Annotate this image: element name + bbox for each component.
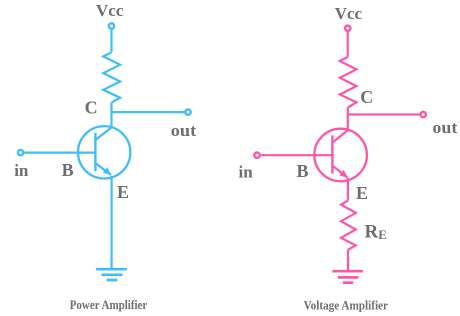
resistor RE (right emitter resistor) — [341, 201, 356, 250]
svg-text:Vcc: Vcc — [96, 1, 124, 20]
svg-text:Power Amplifier: Power Amplifier — [70, 298, 148, 312]
wire Vcc to R (left) — [110, 30, 112, 53]
wire Vcc to R (right) — [347, 32, 349, 57]
svg-text:C: C — [85, 98, 98, 118]
svg-text:Vcc: Vcc — [335, 4, 363, 23]
svg-text:RE: RE — [365, 222, 387, 243]
svg-text:B: B — [296, 161, 308, 181]
terminal in (right) — [254, 153, 259, 158]
wire in to base (right) — [261, 154, 333, 156]
svg-text:in: in — [14, 161, 29, 180]
wire R to collector node (right) — [347, 108, 349, 131]
resistor Rc (left collector resistor) — [103, 52, 120, 102]
transistor Q2 circle (right) — [314, 129, 367, 182]
svg-text:B: B — [62, 160, 74, 180]
resistor Rc (right collector resistor) — [340, 57, 357, 108]
svg-text:C: C — [360, 87, 373, 107]
terminal out (right) — [421, 112, 426, 117]
transistor Q2 base bar (right) — [331, 135, 333, 173]
wire RE to ground (right) — [347, 250, 349, 270]
terminal Vcc (left) — [109, 23, 114, 28]
svg-text:E: E — [356, 183, 368, 203]
svg-text:out: out — [171, 121, 197, 140]
wire R to collector node (left) — [110, 103, 112, 128]
transistor Q1 emitter stroke (left) — [95, 163, 111, 175]
transistor Q2 emitter arrow (right) — [339, 170, 348, 178]
svg-text:out: out — [432, 118, 457, 137]
svg-text:in: in — [239, 162, 254, 181]
transistor Q1 base bar (left) — [94, 133, 96, 171]
terminal in (left) — [18, 150, 23, 155]
wire emitter to ground (left) — [110, 176, 112, 268]
transistor Q1 circle (left) — [78, 126, 130, 178]
ground (right) — [332, 271, 363, 283]
terminal Vcc (right) — [345, 26, 350, 31]
svg-text:E: E — [117, 182, 129, 202]
wire collector node to out (left) — [112, 111, 185, 113]
wire collector node to out (right) — [348, 113, 420, 115]
transistor Q1 collector stroke (left) — [95, 127, 111, 140]
ground (left) — [96, 269, 127, 280]
wire emitter to RE (right) — [347, 178, 349, 201]
svg-text:Voltage Amplifier: Voltage Amplifier — [304, 299, 389, 313]
transistor Q1 emitter arrow (left) — [103, 167, 112, 175]
transistor Q2 collector stroke (right) — [332, 130, 348, 143]
transistor Q2 emitter stroke (right) — [332, 166, 347, 178]
terminal out (left) — [185, 109, 190, 114]
wire in to base (left) — [24, 152, 95, 154]
